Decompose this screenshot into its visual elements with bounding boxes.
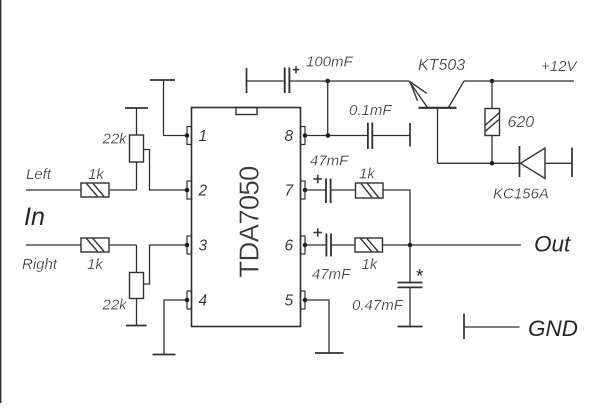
wire R1 to 22k junction [109, 189, 137, 191]
node junction 100mF/pin8 [325, 79, 330, 84]
capacitor C1 100mF electrolytic [247, 54, 354, 94]
pin 6 [285, 236, 308, 255]
svg-text:0.47mF: 0.47mF [352, 297, 404, 314]
capacitor C3 47mF electrolytic [310, 153, 356, 204]
svg-text:TDA7050: TDA7050 [234, 166, 265, 278]
svg-text:1k: 1k [88, 166, 105, 183]
resistor R5 620 [485, 81, 534, 163]
wire R6 to Out junction [383, 190, 410, 245]
resistor R2 1k (right channel) [81, 238, 109, 273]
wire pin 6 to C4 [305, 244, 326, 246]
svg-text:7: 7 [285, 183, 295, 200]
svg-text:4: 4 [199, 293, 208, 310]
node junction Out [408, 243, 413, 248]
svg-text:Left: Left [26, 166, 52, 183]
wire R2 to 22k junction [109, 244, 137, 246]
svg-text:Out: Out [534, 231, 572, 256]
node junction 620 top [490, 79, 495, 84]
resistor R7 1k (pin 6) [355, 238, 383, 273]
ground (below 0.47mF) [398, 326, 423, 328]
ground (above 22k top) [125, 107, 148, 109]
wire collector to +12V [464, 80, 574, 82]
node junction pin 8 [326, 133, 331, 138]
svg-text:1: 1 [199, 128, 208, 145]
wire Left input [26, 189, 81, 191]
svg-text:3: 3 [199, 238, 208, 255]
capacitor C4 47mF electrolytic [312, 228, 355, 283]
svg-text:5: 5 [285, 293, 294, 310]
svg-text:KT503: KT503 [418, 57, 465, 74]
svg-text:8: 8 [285, 128, 294, 145]
svg-text:KC156A: KC156A [493, 186, 549, 203]
wire Right input [26, 244, 81, 246]
node junction 620 bottom [490, 161, 495, 166]
node GND terminal [464, 314, 578, 342]
wire to Out [383, 244, 522, 246]
ground (below pin 5) [315, 352, 344, 354]
wire pin 4 to ground [164, 300, 187, 355]
svg-text:47mF: 47mF [312, 266, 351, 283]
svg-text:Right: Right [22, 256, 58, 273]
pin 1 [185, 127, 207, 146]
wire C1 to transistor emitter [290, 80, 409, 82]
resistor R3 22k (top) [102, 108, 144, 190]
pin 7 [285, 181, 308, 200]
svg-text:2: 2 [198, 183, 208, 200]
svg-text:6: 6 [285, 238, 294, 255]
svg-text:100mF: 100mF [306, 54, 354, 71]
pin 2 [185, 181, 208, 200]
svg-text:1k: 1k [362, 256, 379, 273]
svg-text:1k: 1k [359, 166, 376, 183]
svg-text:22k: 22k [102, 131, 129, 148]
svg-text:620: 620 [508, 114, 535, 131]
resistor R6 1k (pin 7) [356, 166, 384, 199]
svg-text:In: In [24, 203, 45, 231]
svg-text:47mF: 47mF [310, 153, 349, 170]
capacitor C5 0.47mF [352, 245, 424, 327]
pin 4 [185, 291, 208, 310]
ground (above pin 1) [150, 79, 175, 81]
op-amp U1 TDA7050 body [192, 108, 301, 327]
diode VD1 KC156A zener [493, 146, 572, 203]
pin 3 [185, 236, 208, 255]
wire pin 5 to ground [305, 300, 329, 353]
svg-text:0.1mF: 0.1mF [349, 102, 392, 119]
svg-text:*: * [416, 267, 424, 288]
capacitor C2 0.1mF [349, 102, 410, 149]
svg-text:GND: GND [528, 316, 578, 341]
wire pin 7 to C3 [305, 189, 326, 191]
wire ground to pin 1 [164, 80, 187, 136]
ground (below 22k bottom) [126, 325, 147, 327]
wire 22k tap to pin 3 [144, 245, 187, 284]
svg-text:22k: 22k [102, 297, 129, 314]
wire pin 8 to 0.1mF [305, 135, 367, 137]
svg-text:1k: 1k [87, 256, 104, 273]
svg-text:+12V: +12V [541, 58, 578, 75]
wire 22k tap to pin 2 [144, 150, 187, 191]
resistor R1 1k (left channel) [81, 166, 109, 197]
wire base rail to diode [438, 162, 520, 164]
transistor Q1 KT503 [409, 57, 465, 163]
pin 8 [285, 127, 308, 146]
wire junction down to pin 8 [327, 81, 329, 136]
ground (below pin 4) [153, 354, 176, 356]
resistor R4 22k (bottom) [102, 245, 144, 326]
pin 5 [285, 291, 308, 310]
